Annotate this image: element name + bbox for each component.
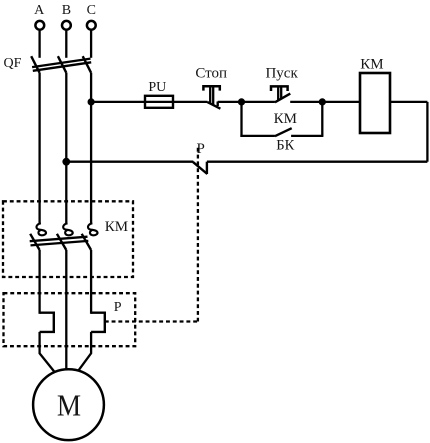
wire node to KM coil [322,101,360,103]
contactor main contact A loop [36,223,46,235]
circuit breaker QF tie bar lower [33,62,91,71]
circuit breaker QF pole B blade [58,56,66,73]
svg-text:Пуск: Пуск [265,65,298,81]
svg-text:QF: QF [4,56,22,71]
node junction C control tap [88,98,95,105]
wire right edge down [426,102,428,162]
pushbutton Стоп actuator cap [203,86,219,90]
motor M [33,369,104,440]
svg-text:М: М [57,388,81,423]
contactor main contact B blade [57,234,66,250]
pushbutton Пуск actuator stem right [280,87,282,99]
node junction left of start button [238,98,245,105]
thermal relay P dashed enclosure [4,293,136,346]
node junction B bottom return [62,158,70,166]
svg-text:КМ: КМ [360,57,383,73]
wire node to start button [242,101,275,103]
contactor KM dashed enclosure [3,201,133,277]
thermal relay contact P fixed tick [206,162,208,174]
wire phase C QF to KM contact [90,73,92,225]
svg-text:Р: Р [114,300,122,315]
wire phase B QF to KM contact [65,73,67,225]
wire bottom return left of P contact [66,161,193,163]
circuit breaker QF tie bar upper [32,59,90,68]
terminal B [62,3,71,30]
terminal A [34,3,45,30]
contactor coil KM [360,57,390,133]
contactor main contact A blade [30,234,39,250]
pushbutton Стоп actuator stem right [212,87,214,105]
pushbutton Стоп moving blade [207,102,220,109]
wire bottom return right of P contact [207,161,428,163]
wire phase B KM contact to motor [65,250,67,370]
pushbutton Пуск actuator stem left [277,87,279,100]
pushbutton Стоп actuator stem left [209,87,211,104]
contactor main contacts tie bar lower [31,241,89,246]
mechanical link dashed horizontal [105,320,198,322]
node junction right of start button [319,98,326,105]
svg-text:КМ: КМ [105,219,128,235]
wire phase A KM contact to heater [38,250,40,314]
wire stop button to node [218,101,242,103]
auxiliary contact branch right rise wire [321,102,323,136]
contactor main contact C loop [88,223,98,235]
svg-text:PU: PU [148,80,166,95]
svg-text:C: C [87,3,96,18]
contactor main contacts tie bar upper [30,237,88,242]
auxiliary contact КМ blade [275,128,292,136]
svg-text:A: A [34,3,45,18]
thermal relay heater element phase A [40,313,54,332]
auxiliary contact branch bottom left wire [240,135,275,137]
thermal relay heater element phase C [91,313,105,332]
wire phase C KM contact to heater [90,250,92,314]
fuse PU [145,80,173,108]
circuit breaker QF pole A blade [31,56,39,73]
wire control top from C to stop button [91,101,207,103]
wire phase C heater to motor [78,332,91,371]
auxiliary contact branch left drop wire [240,102,242,137]
svg-text:Стоп: Стоп [195,65,227,81]
circuit breaker QF pole C blade [83,56,91,73]
svg-text:КМ: КМ [274,111,297,127]
thermal relay contact P blade [193,162,207,174]
wire KM coil to right edge [390,101,427,103]
contactor main contact C blade [82,234,91,250]
svg-text:БК: БК [276,138,294,154]
pushbutton Пуск actuator cap [271,86,288,91]
wire start button to node [290,101,322,103]
mechanical link dashed vertical [197,148,199,322]
auxiliary contact branch bottom right wire [291,135,323,137]
terminal C [87,3,96,30]
wire phase B terminal to QF [65,30,67,58]
wire phase A terminal to QF [38,30,40,58]
svg-text:B: B [62,3,71,18]
contactor main contact B loop [63,223,73,235]
wire phase A QF to KM contact [38,73,40,225]
pushbutton Стоп fixed contact tick [216,102,218,107]
wire phase C terminal to QF [90,30,92,58]
wire phase A heater to motor [40,332,55,372]
pushbutton Пуск moving blade [275,94,290,103]
